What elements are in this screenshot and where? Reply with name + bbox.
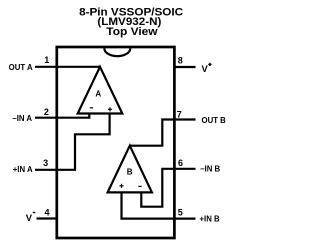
svg-text:A: A [95, 90, 101, 99]
op-amp A [78, 67, 123, 114]
svg-text:+IN A: +IN A [13, 165, 33, 174]
wire pin 5 +IN B to op-amp B non-inverting input [122, 192, 196, 218]
svg-text:V: V [202, 63, 209, 74]
svg-text:5: 5 [178, 207, 183, 217]
svg-text:Top View: Top View [106, 26, 158, 38]
notch [104, 48, 130, 56]
svg-text:4: 4 [44, 207, 49, 217]
wire pin 8 V+ stub [175, 66, 196, 68]
svg-text:3: 3 [43, 158, 48, 168]
svg-text:1: 1 [44, 55, 49, 65]
wire pin 4 V- stub [37, 217, 57, 219]
svg-text:−IN A: −IN A [12, 114, 32, 123]
IC body [57, 47, 175, 238]
wire pin 7 OUT B to op-amp B output [130, 120, 196, 146]
svg-text:OUT A: OUT A [9, 63, 33, 72]
pin label V- [26, 212, 36, 223]
svg-text:−IN B: −IN B [200, 165, 221, 174]
wire pin 3 +IN A to op-amp A non-inverting input [35, 113, 110, 170]
svg-text:7: 7 [177, 109, 182, 119]
svg-text:6: 6 [178, 158, 183, 168]
wire pin 2 -IN A to op-amp A inverting input [35, 113, 89, 118]
op-amp B [108, 146, 152, 193]
svg-text:2: 2 [44, 107, 49, 117]
svg-text:OUT B: OUT B [202, 116, 227, 125]
svg-text:8: 8 [178, 55, 183, 65]
svg-text:B: B [127, 168, 133, 177]
svg-text:+IN B: +IN B [200, 215, 221, 224]
wire pin 1 OUT A to op-amp A output [35, 66, 100, 68]
svg-text:V: V [26, 212, 33, 223]
pin label V+ [202, 63, 212, 74]
wire pin 6 -IN B to op-amp B inverting input [141, 169, 195, 207]
